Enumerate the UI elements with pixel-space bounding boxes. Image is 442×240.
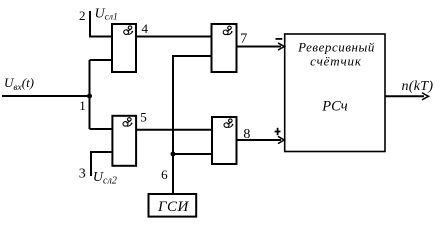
svg-text:5: 5 [140,110,147,125]
svg-text:8: 8 [243,127,250,142]
svg-text:ГСИ: ГСИ [157,199,190,215]
svg-text:счётчик: счётчик [310,54,362,69]
svg-text:n(kT): n(kT) [402,79,434,94]
svg-text:РСч: РСч [321,99,348,115]
svg-text:7: 7 [240,32,247,47]
svg-text:1: 1 [79,98,86,113]
svg-text:Реверсивный: Реверсивный [297,40,375,55]
svg-text:2: 2 [79,8,86,23]
svg-text:3: 3 [79,166,86,181]
svg-text:4: 4 [141,21,148,36]
svg-text:6: 6 [161,167,168,182]
